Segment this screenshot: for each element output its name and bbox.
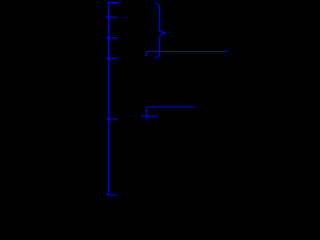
foot of leader line B [145, 107, 147, 119]
tick 6 (bottom) [107, 194, 118, 196]
tick 4 [108, 57, 118, 59]
tick 2 [108, 16, 118, 18]
crossbar of leader line B [141, 115, 157, 117]
tick 5 [108, 118, 118, 120]
arrowhead at tick 1 [107, 3, 109, 4]
leader line A [146, 50, 227, 52]
arrowhead at tick 5 [107, 118, 109, 120]
brace [154, 2, 165, 58]
arrowhead at tick 4 [107, 57, 109, 59]
tick 1 (top) [107, 1, 118, 3]
tick 3 [108, 37, 118, 39]
leader line B [146, 106, 194, 108]
axis [108, 2, 110, 195]
arrowhead at tick 3 [107, 36, 109, 39]
arrowhead at tick 2 [107, 16, 109, 18]
arrowhead at tick 6 [107, 194, 109, 196]
foot of leader line A [145, 51, 147, 55]
